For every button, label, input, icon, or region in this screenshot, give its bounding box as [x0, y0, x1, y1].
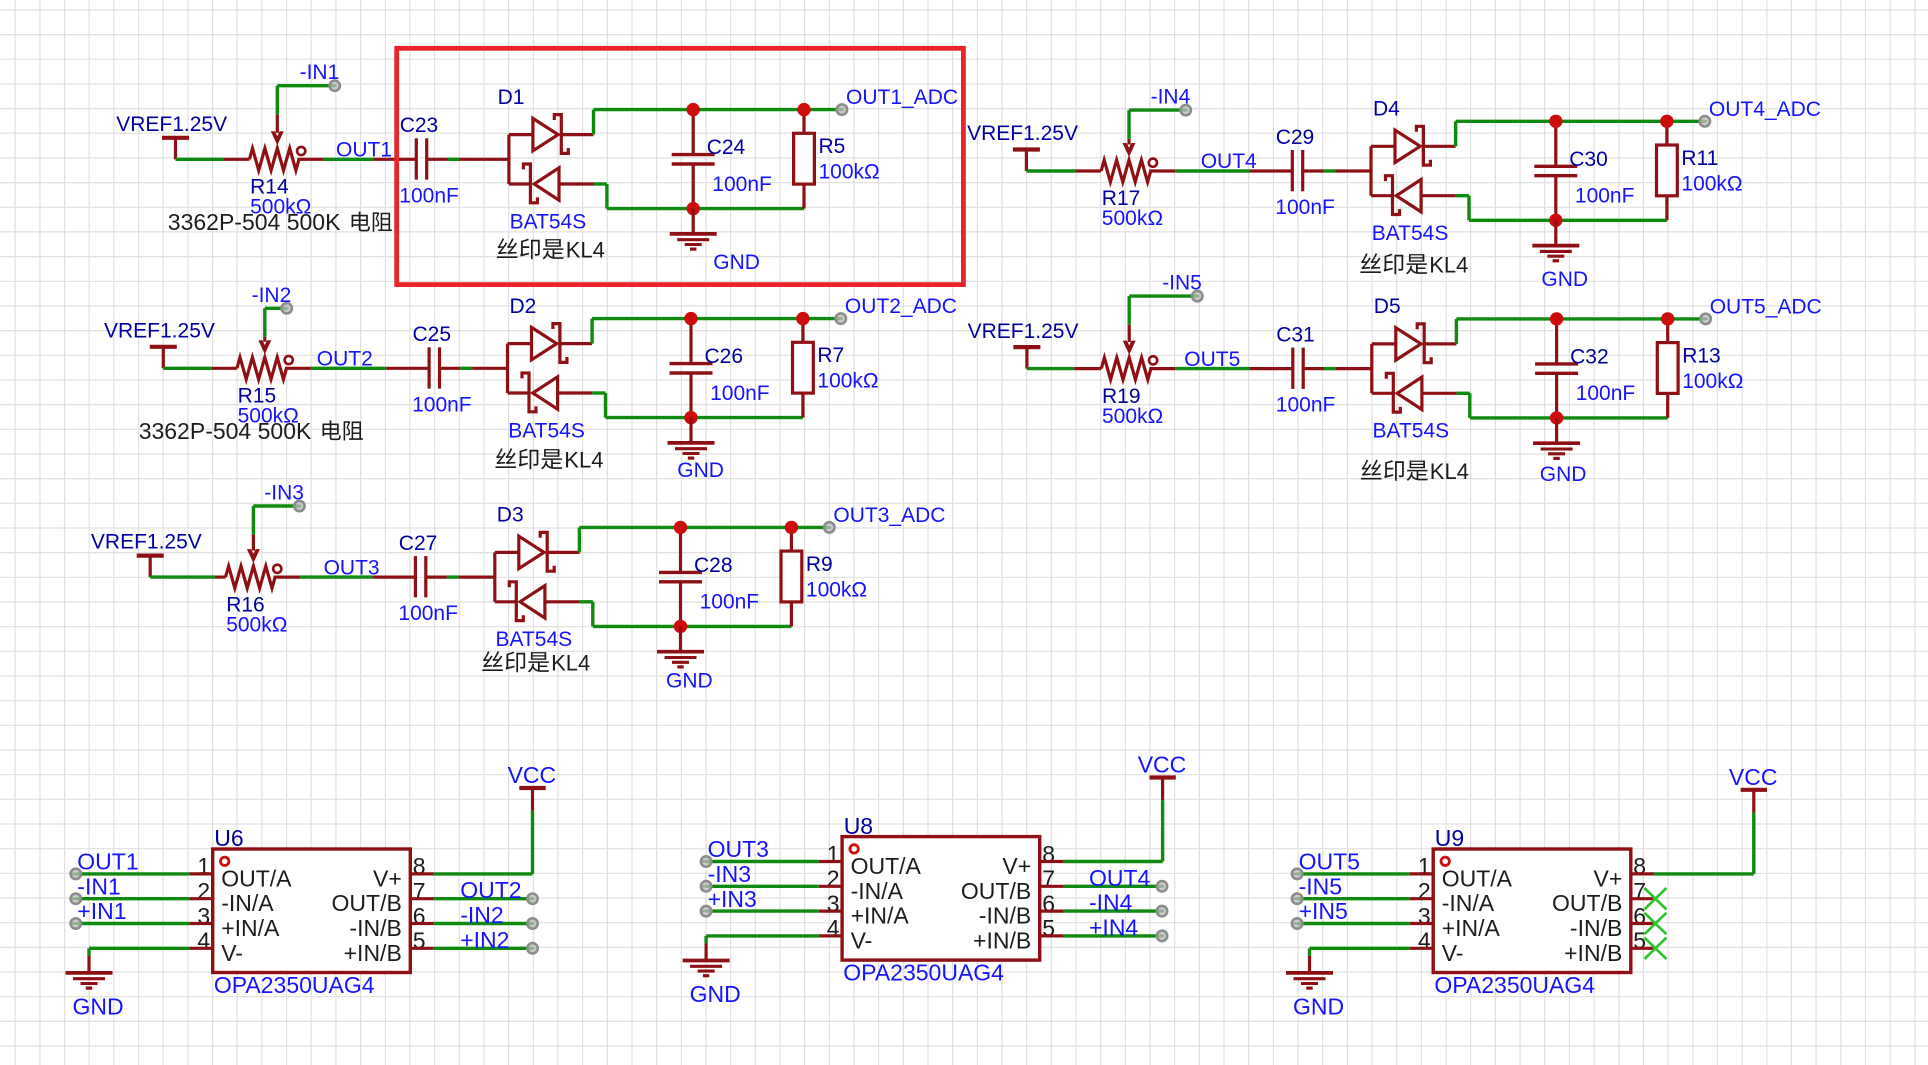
svg-text:V+: V+ — [1594, 865, 1623, 891]
wire cap to D bus — [440, 367, 508, 370]
resistor R9 100k — [781, 527, 802, 626]
pin OUT1_ADC — [837, 104, 847, 114]
svg-text:VCC: VCC — [1729, 764, 1778, 790]
wire pin8 V+ to VCC (U9) — [1631, 813, 1754, 874]
svg-text:OUT/A: OUT/A — [1442, 865, 1513, 891]
capacitor C31 100nF (series) — [1293, 348, 1303, 389]
op-amp U9 OPA2350UAG4 — [1418, 849, 1646, 973]
no-connect X pin7 U9 — [1644, 888, 1666, 909]
resistor R5 100k — [794, 110, 815, 209]
svg-text:VREF1.25V: VREF1.25V — [968, 320, 1079, 343]
svg-text:V+: V+ — [1002, 853, 1031, 879]
capacitor C23 100nF (series) — [416, 138, 426, 179]
svg-text:U9: U9 — [1435, 825, 1464, 851]
svg-text:VCC: VCC — [1138, 752, 1187, 778]
power port VREF1.25V (ch2) — [150, 347, 177, 369]
wire pin1 U8 — [706, 860, 842, 863]
pin -IN2 — [527, 918, 537, 928]
junction R top — [1661, 312, 1674, 325]
wire pin3 U8 — [706, 909, 842, 912]
capacitor C27 100nF (series) — [415, 556, 425, 597]
svg-text:+IN/A: +IN/A — [851, 903, 910, 929]
svg-text:100nF: 100nF — [700, 591, 760, 614]
svg-text:BAT54S: BAT54S — [1372, 222, 1449, 245]
svg-text:-IN5: -IN5 — [1299, 873, 1342, 899]
svg-text:OPA2350UAG4: OPA2350UAG4 — [843, 960, 1004, 986]
wire VREF to R wiper-left — [1027, 367, 1101, 370]
svg-text:GND: GND — [666, 669, 713, 692]
svg-text:-IN2: -IN2 — [460, 902, 503, 928]
comment 丝印是KL4 (ch4) — [1360, 253, 1468, 278]
svg-text:GND: GND — [713, 251, 760, 274]
svg-text:+IN/B: +IN/B — [344, 940, 402, 966]
resistor R13 100k — [1657, 319, 1678, 418]
svg-text:R11: R11 — [1681, 147, 1718, 170]
svg-text:3362P-504 500K: 3362P-504 500K — [139, 418, 312, 444]
ground (ch4) — [1532, 220, 1579, 260]
junction C top — [674, 521, 687, 534]
wire pin4 V- to GND (U6) — [89, 948, 213, 972]
potentiometer R15 500k — [237, 337, 293, 379]
potentiometer R19 500k — [1101, 325, 1157, 380]
resistor R11 100k — [1657, 121, 1678, 220]
ground (ch3) — [657, 626, 704, 667]
svg-text:OUT3_ADC: OUT3_ADC — [833, 504, 945, 527]
wire pin2 U8 — [706, 885, 842, 888]
pin OUT2 — [527, 894, 537, 904]
wire wiper to -IN5 pin — [1129, 296, 1197, 325]
svg-text:500kΩ: 500kΩ — [226, 613, 287, 636]
capacitor C32 100nF (shunt) — [1535, 319, 1578, 418]
svg-text:-IN5: -IN5 — [1162, 272, 1202, 295]
svg-text:100kΩ: 100kΩ — [1681, 172, 1742, 195]
power port VCC (U9) — [1741, 790, 1767, 813]
potentiometer R16 500k — [226, 535, 282, 589]
diode D2 BAT54S dual schottky — [508, 324, 593, 412]
svg-text:D3: D3 — [497, 504, 524, 527]
svg-text:OUT/B: OUT/B — [332, 890, 402, 916]
svg-text:-IN/A: -IN/A — [851, 878, 904, 904]
wire cap to D bus — [426, 575, 495, 578]
pin OUT3 — [701, 856, 711, 866]
svg-text:GND: GND — [1540, 463, 1587, 486]
potentiometer R17 500k — [1101, 139, 1157, 182]
svg-text:-IN/B: -IN/B — [349, 915, 401, 941]
wire cap to D bus — [1303, 169, 1371, 172]
svg-text:-IN/B: -IN/B — [1570, 915, 1622, 941]
capacitor C24 100nF (shunt) — [672, 110, 715, 209]
svg-text:+IN/B: +IN/B — [973, 927, 1031, 953]
svg-text:100kΩ: 100kΩ — [819, 161, 880, 184]
wire pin4 V- to GND (U9) — [1310, 948, 1434, 972]
svg-text:V-: V- — [1442, 940, 1464, 966]
ground (ch1) — [670, 209, 717, 250]
svg-text:OPA2350UAG4: OPA2350UAG4 — [214, 972, 375, 998]
wire pin1 U9 — [1297, 872, 1433, 875]
svg-text:OUT1_ADC: OUT1_ADC — [846, 86, 958, 109]
wire top rail to OUT4_ADC — [1456, 121, 1705, 146]
svg-text:-IN3: -IN3 — [264, 482, 304, 505]
svg-text:OUT1: OUT1 — [77, 849, 138, 875]
junction C top — [1550, 312, 1563, 325]
svg-text:C23: C23 — [400, 114, 439, 137]
svg-text:100kΩ: 100kΩ — [1682, 370, 1743, 393]
svg-text:BAT54S: BAT54S — [510, 210, 587, 233]
wire wiper to -IN2 pin — [265, 308, 287, 337]
svg-text:100nF: 100nF — [1575, 185, 1635, 208]
pin -IN4 — [1157, 906, 1167, 916]
wire pin1 U6 — [76, 872, 213, 875]
svg-text:OUT2_ADC: OUT2_ADC — [845, 295, 957, 318]
svg-text:100nF: 100nF — [399, 184, 459, 207]
svg-text:-IN2: -IN2 — [252, 284, 292, 307]
svg-text:-IN3: -IN3 — [708, 861, 751, 887]
power port VCC (U6) — [519, 788, 545, 811]
svg-text:VREF1.25V: VREF1.25V — [104, 320, 215, 343]
wire cap to D bus — [1303, 367, 1372, 370]
svg-text:100nF: 100nF — [1576, 382, 1636, 405]
wire VREF to R wiper-left — [1026, 169, 1101, 172]
resistor R7 100k — [793, 319, 814, 418]
no-connect X pin5 U9 — [1644, 938, 1666, 959]
pin -IN4 — [1181, 105, 1191, 115]
svg-text:OUT5: OUT5 — [1299, 849, 1360, 875]
svg-text:OUT4_ADC: OUT4_ADC — [1709, 98, 1821, 121]
svg-text:100nF: 100nF — [1276, 394, 1336, 417]
junction C bottom — [684, 411, 697, 424]
svg-text:R5: R5 — [819, 135, 846, 158]
svg-text:-IN1: -IN1 — [77, 873, 120, 899]
svg-text:OUT4: OUT4 — [1201, 150, 1257, 173]
comment 丝印是KL4 (ch2) — [495, 448, 603, 473]
svg-text:-IN4: -IN4 — [1089, 890, 1133, 916]
pin +IN4 — [1157, 931, 1167, 941]
pin -IN3 — [701, 881, 711, 891]
capacitor C28 100nF (shunt) — [659, 527, 702, 626]
svg-text:100nF: 100nF — [398, 602, 458, 625]
pin OUT3_ADC — [824, 522, 834, 532]
svg-text:OUT5_ADC: OUT5_ADC — [1710, 295, 1822, 318]
diode D5 BAT54S dual schottky — [1372, 324, 1457, 412]
svg-text:+IN/B: +IN/B — [1564, 940, 1622, 966]
svg-text:OUT/B: OUT/B — [961, 878, 1031, 904]
svg-text:V-: V- — [851, 927, 873, 953]
wire bottom rail — [579, 602, 791, 627]
power port VREF1.25V (ch3) — [137, 556, 164, 578]
junction R top — [1660, 115, 1673, 128]
pin -IN3 — [294, 501, 304, 511]
selection highlight box (ch1) — [397, 48, 964, 284]
svg-text:OUT2: OUT2 — [317, 348, 373, 371]
svg-text:+IN3: +IN3 — [708, 886, 757, 912]
junction C top — [687, 103, 700, 116]
comment 3362P-504 500K 电阻 (ch1) — [168, 209, 392, 235]
svg-text:-IN/A: -IN/A — [1442, 890, 1495, 916]
op-amp U8 OPA2350UAG4 — [827, 837, 1055, 961]
svg-text:C26: C26 — [705, 345, 744, 368]
svg-text:KL4: KL4 — [566, 238, 605, 263]
wire pin4 V- to GND (U8) — [706, 936, 842, 960]
wire pin2 U6 — [76, 897, 213, 900]
svg-text:100kΩ: 100kΩ — [817, 370, 878, 393]
pin +IN1 — [71, 918, 81, 928]
junction C bottom — [1549, 214, 1562, 227]
power port VREF1.25V (ch1) — [162, 138, 189, 160]
ground (U6) — [66, 972, 113, 988]
capacitor C29 100nF (series) — [1292, 150, 1302, 191]
svg-text:100nF: 100nF — [712, 173, 772, 196]
svg-text:BAT54S: BAT54S — [508, 419, 585, 442]
svg-text:100kΩ: 100kΩ — [806, 578, 867, 601]
svg-text:VREF1.25V: VREF1.25V — [967, 122, 1078, 145]
svg-text:VCC: VCC — [508, 762, 557, 788]
svg-text:GND: GND — [690, 981, 741, 1007]
junction R top — [797, 103, 810, 116]
pin -IN5 — [1292, 894, 1302, 904]
wire pin5 U8 — [1040, 934, 1162, 937]
svg-text:C24: C24 — [707, 136, 746, 159]
svg-text:C28: C28 — [694, 554, 733, 577]
svg-text:OUT5: OUT5 — [1184, 348, 1240, 371]
svg-text:BAT54S: BAT54S — [496, 628, 573, 651]
svg-text:BAT54S: BAT54S — [1373, 420, 1450, 443]
wire top rail to OUT1_ADC — [594, 110, 842, 135]
comment 3362P-504 500K 电阻 (ch2) — [139, 418, 363, 444]
junction R top — [785, 521, 798, 534]
pin -IN1 — [330, 81, 340, 91]
svg-text:GND: GND — [1541, 268, 1588, 291]
wire VREF to R wiper-left — [163, 367, 237, 370]
svg-text:OUT3: OUT3 — [324, 556, 380, 579]
wire pin8 V+ to VCC (U6) — [410, 811, 532, 874]
wire pin5 stub U9 — [1631, 947, 1654, 950]
wire bottom rail — [594, 184, 805, 209]
wire OUT2 net — [285, 367, 429, 370]
svg-text:U8: U8 — [844, 813, 873, 839]
svg-text:100nF: 100nF — [412, 393, 472, 416]
svg-text:KL4: KL4 — [1429, 253, 1468, 278]
wire pin6 U6 — [410, 922, 532, 925]
svg-text:100nF: 100nF — [1275, 196, 1335, 219]
wire pin8 V+ to VCC (U8) — [1040, 800, 1163, 861]
wire pin6 stub U9 — [1631, 922, 1654, 925]
ground (U8) — [683, 960, 730, 976]
svg-text:D5: D5 — [1374, 295, 1401, 318]
power port VCC (U8) — [1149, 778, 1175, 801]
wire top rail to OUT3_ADC — [579, 527, 829, 552]
pin OUT1 — [71, 869, 81, 879]
svg-text:V-: V- — [221, 940, 243, 966]
pin -IN2 — [282, 303, 292, 313]
wire bottom rail — [592, 393, 803, 418]
svg-text:C31: C31 — [1276, 323, 1315, 346]
pin +IN5 — [1292, 918, 1302, 928]
pin -IN1 — [71, 894, 81, 904]
svg-text:+IN/A: +IN/A — [221, 915, 280, 941]
svg-text:-IN/B: -IN/B — [979, 903, 1031, 929]
svg-text:GND: GND — [73, 993, 124, 1019]
capacitor C25 100nF (series) — [429, 347, 439, 388]
no-connect X pin6 U9 — [1644, 913, 1666, 934]
wire bottom rail — [1456, 196, 1667, 221]
svg-text:OUT2: OUT2 — [460, 877, 521, 903]
svg-text:C27: C27 — [399, 532, 438, 555]
svg-text:-IN1: -IN1 — [300, 61, 340, 84]
wire OUT4 net — [1149, 169, 1292, 172]
pin OUT4_ADC — [1700, 116, 1710, 126]
wire pin6 U8 — [1040, 909, 1162, 912]
svg-text:C30: C30 — [1569, 148, 1608, 171]
ground (U9) — [1286, 972, 1333, 988]
svg-text:C25: C25 — [413, 323, 452, 346]
pin OUT4 — [1157, 881, 1167, 891]
wire wiper to -IN4 pin — [1129, 110, 1186, 139]
diode D3 BAT54S dual schottky — [495, 532, 580, 620]
svg-text:100nF: 100nF — [710, 382, 770, 405]
wire top rail to OUT5_ADC — [1456, 319, 1705, 344]
comment 丝印是KL4 (ch5) — [1361, 459, 1469, 484]
comment 丝印是KL4 (ch1) — [497, 238, 605, 263]
svg-text:-IN4: -IN4 — [1151, 86, 1191, 109]
junction R top — [796, 312, 809, 325]
wire pin3 U9 — [1297, 922, 1433, 925]
svg-text:U6: U6 — [214, 825, 243, 851]
junction C bottom — [687, 202, 700, 215]
ground (ch2) — [668, 418, 715, 459]
wire wiper to -IN3 pin — [253, 506, 299, 535]
wire pin5 U6 — [410, 947, 532, 950]
svg-text:OUT/A: OUT/A — [221, 865, 292, 891]
svg-text:-IN/A: -IN/A — [221, 890, 274, 916]
svg-text:D4: D4 — [1373, 98, 1400, 121]
svg-text:C32: C32 — [1570, 345, 1609, 368]
wire OUT3 net — [274, 575, 416, 578]
junction C top — [1549, 115, 1562, 128]
pin -IN5 — [1192, 291, 1202, 301]
svg-text:+IN/A: +IN/A — [1442, 915, 1501, 941]
svg-text:OUT/A: OUT/A — [851, 853, 922, 879]
wire bottom rail — [1456, 393, 1667, 418]
svg-text:C29: C29 — [1276, 126, 1315, 149]
diode D1 BAT54S dual schottky — [509, 115, 594, 203]
svg-text:KL4: KL4 — [564, 448, 603, 473]
power port VREF1.25V (ch5) — [1013, 347, 1040, 369]
pin OUT2_ADC — [836, 313, 846, 323]
ground (ch5) — [1533, 418, 1580, 459]
svg-text:+IN2: +IN2 — [460, 927, 509, 953]
svg-text:VREF1.25V: VREF1.25V — [91, 531, 202, 554]
svg-text:R9: R9 — [806, 553, 833, 576]
svg-text:KL4: KL4 — [551, 651, 590, 676]
wire pin7 U8 — [1040, 885, 1162, 888]
diode D4 BAT54S dual schottky — [1371, 126, 1456, 214]
wire cap to D bus — [427, 158, 509, 161]
pin +IN3 — [701, 906, 711, 916]
capacitor C26 100nF (shunt) — [670, 319, 713, 418]
svg-text:+IN4: +IN4 — [1089, 914, 1138, 940]
svg-text:OUT/B: OUT/B — [1552, 890, 1622, 916]
svg-text:GND: GND — [1293, 993, 1344, 1019]
pin OUT5_ADC — [1700, 314, 1710, 324]
junction C bottom — [1550, 411, 1563, 424]
svg-text:500kΩ: 500kΩ — [1102, 405, 1163, 428]
capacitor C30 100nF (shunt) — [1534, 121, 1577, 220]
svg-text:3362P-504 500K: 3362P-504 500K — [168, 209, 341, 235]
svg-text:V+: V+ — [373, 865, 402, 891]
wire wiper to -IN1 pin — [277, 86, 334, 115]
junction C top — [684, 312, 697, 325]
wire VREF to R wiper-left — [176, 158, 250, 161]
wire pin7 stub U9 — [1631, 897, 1654, 900]
wire pin2 U9 — [1297, 897, 1433, 900]
svg-text:OUT1: OUT1 — [336, 139, 392, 162]
power port VREF1.25V (ch4) — [1013, 150, 1040, 172]
svg-text:D2: D2 — [510, 295, 537, 318]
comment 丝印是KL4 (ch3) — [482, 651, 590, 676]
junction C bottom — [674, 620, 687, 633]
svg-text:D1: D1 — [498, 86, 525, 109]
wire pin3 U6 — [76, 922, 213, 925]
svg-text:+IN1: +IN1 — [77, 898, 126, 924]
svg-text:500kΩ: 500kΩ — [1102, 207, 1163, 230]
svg-text:KL4: KL4 — [1430, 459, 1469, 484]
svg-text:OUT4: OUT4 — [1089, 865, 1151, 891]
svg-text:GND: GND — [677, 459, 724, 482]
svg-text:R13: R13 — [1682, 345, 1721, 368]
pin OUT5 — [1292, 869, 1302, 879]
svg-text:OPA2350UAG4: OPA2350UAG4 — [1434, 972, 1595, 998]
svg-text:VREF1.25V: VREF1.25V — [116, 113, 227, 136]
wire OUT1 net — [297, 158, 416, 161]
wire top rail to OUT2_ADC — [592, 319, 841, 344]
svg-text:OUT3: OUT3 — [708, 836, 769, 862]
wire pin7 U6 — [410, 897, 532, 900]
pin +IN2 — [527, 943, 537, 953]
svg-text:R7: R7 — [817, 344, 844, 367]
potentiometer R14 500k — [249, 114, 305, 170]
wire VREF to R wiper-left — [150, 575, 225, 578]
wire OUT5 net — [1149, 367, 1293, 370]
svg-text:+IN5: +IN5 — [1299, 898, 1348, 924]
op-amp U6 OPA2350UAG4 — [197, 849, 425, 973]
